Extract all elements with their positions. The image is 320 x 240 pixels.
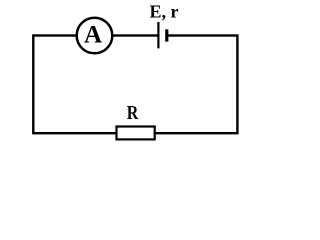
- ammeter A1: [77, 18, 113, 54]
- battery plate short: [165, 29, 168, 41]
- svg-text:A: A: [84, 22, 102, 49]
- svg-text:R: R: [127, 102, 140, 124]
- battery plate long: [157, 22, 159, 48]
- svg-text:E, r: E, r: [150, 2, 179, 22]
- resistor R1: [117, 127, 155, 140]
- battery gap blank: [158, 33, 167, 39]
- wire loop: [33, 36, 237, 134]
